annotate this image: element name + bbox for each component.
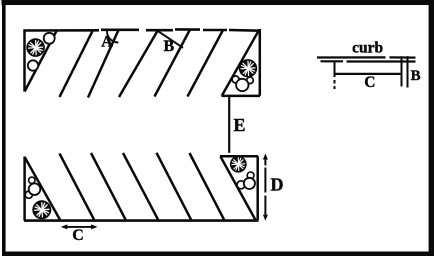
svg-text:B: B — [163, 38, 174, 55]
svg-text:E: E — [233, 115, 245, 135]
svg-text:D: D — [271, 175, 284, 195]
svg-text:C: C — [364, 74, 375, 91]
svg-text:C: C — [72, 227, 84, 244]
svg-text:B: B — [411, 68, 421, 84]
svg-text:curb: curb — [352, 40, 383, 57]
svg-text:A: A — [101, 33, 113, 50]
